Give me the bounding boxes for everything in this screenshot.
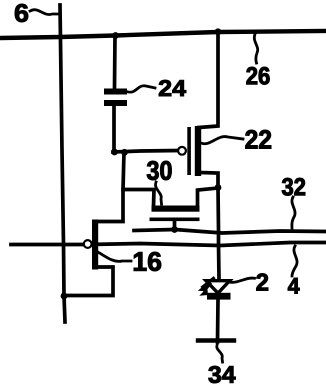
power supply line 26 (top rail) — [1, 31, 324, 38]
label 26 — [247, 67, 270, 85]
label 34 — [209, 366, 236, 383]
leader line for 32 — [292, 197, 295, 228]
data line 6 (left vertical) — [60, 5, 65, 322]
leader line for 26 — [254, 34, 257, 63]
OLED diode 2 cathode bar — [207, 293, 231, 300]
terminal bar 34 — [198, 338, 234, 342]
wire from node B down to transistor 16 drain — [95, 152, 124, 222]
leader line for 2 — [231, 278, 255, 282]
leader line for 16 — [98, 252, 131, 261]
transistor 22 gate circle — [178, 147, 186, 155]
anode line from junction down to diode 2 — [218, 188, 219, 280]
label 30 — [147, 161, 172, 180]
transistor 22 gate bar — [187, 127, 191, 175]
capacitor 24 top plate — [104, 89, 127, 95]
OLED light arrow 2 — [199, 284, 210, 296]
node dot on line 32 — [171, 226, 178, 233]
transistor 30 gate bar — [150, 218, 200, 222]
junction dot below transistor 22 — [215, 184, 222, 191]
node dot on data line 6 — [61, 293, 68, 300]
node dot on rail at capacitor branch — [112, 32, 119, 39]
transistor 22 channel bar — [195, 126, 201, 176]
scan line 32 — [134, 230, 326, 234]
leader line for 34 — [217, 345, 223, 362]
node dot B (branch to transistors 16/30) — [121, 149, 128, 156]
storage node wire to gate of transistor 22 — [113, 151, 178, 153]
leader line for 22 — [201, 137, 243, 144]
label 16 — [134, 252, 161, 271]
leader line for 6 — [30, 10, 60, 15]
label 22 — [246, 130, 272, 149]
label 6 — [15, 4, 28, 22]
label 24 — [159, 80, 186, 96]
transistor 16 gate circle — [84, 240, 92, 248]
transistor 30 drain lead to junction — [198, 188, 219, 206]
node dot A (capacitor junction) — [111, 149, 118, 156]
transistor 16 source lead to data line 6 — [64, 267, 113, 296]
transistor 30 channel bar — [152, 206, 200, 212]
label 4 — [288, 278, 300, 294]
label 2 — [257, 274, 269, 291]
leader line for 24 — [128, 86, 155, 93]
leader line for 4 — [292, 246, 297, 276]
transistor 22 drain lead to rail — [199, 32, 218, 128]
transistor 16 channel bar — [92, 220, 98, 270]
node dot on rail at transistor 22 drain branch — [215, 28, 222, 35]
leader line for 30 — [155, 182, 161, 204]
capacitor 24 bottom plate — [104, 100, 127, 106]
label 32 — [282, 178, 305, 196]
transistor 22 source lead down — [199, 173, 218, 188]
cathode wire from diode 2 to terminal 34 — [216, 300, 220, 343]
wire from capacitor 24 to storage node — [112, 106, 116, 152]
transistor 30 gate lead to line 32 — [173, 221, 177, 230]
OLED diode 2 triangle — [206, 281, 230, 294]
wire from rail to capacitor 24 — [113, 36, 117, 89]
select line 4 — [11, 243, 326, 246]
OLED light arrow 1 — [198, 278, 214, 291]
wire branch to transistor 30 source — [123, 190, 154, 207]
